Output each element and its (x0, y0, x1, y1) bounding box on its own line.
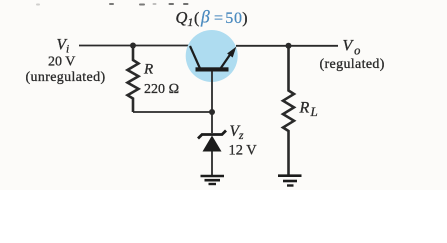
wire bottom (R to base node) (133, 111, 212, 113)
svg-text:β: β (200, 6, 210, 26)
svg-text:(unregulated): (unregulated) (26, 70, 106, 85)
ground (zener) (201, 176, 225, 184)
ground (load) (278, 176, 302, 186)
wire base lead (211, 72, 213, 134)
svg-text:(: ( (194, 10, 199, 27)
resistor RL (283, 46, 318, 175)
label Vo (320, 38, 385, 72)
svg-text:(regulated): (regulated) (320, 57, 385, 72)
svg-text:=: = (214, 10, 223, 27)
transistor Q1 (176, 6, 248, 82)
svg-text:R: R (143, 62, 153, 78)
svg-text:20 V: 20 V (48, 55, 75, 70)
label Vi (26, 37, 106, 85)
svg-text:): ) (242, 10, 247, 27)
wire zener to ground (211, 152, 213, 176)
svg-text:50: 50 (225, 10, 242, 27)
svg-text:220 Ω: 220 Ω (144, 82, 179, 97)
node base junction (209, 109, 215, 115)
resistor R (128, 46, 180, 113)
node input-R junction (130, 43, 136, 49)
svg-text:12 V: 12 V (229, 143, 258, 159)
wire output (236, 45, 338, 47)
zener diode Vz (198, 123, 257, 159)
node output-RL junction (286, 43, 292, 49)
wire input (79, 45, 191, 47)
